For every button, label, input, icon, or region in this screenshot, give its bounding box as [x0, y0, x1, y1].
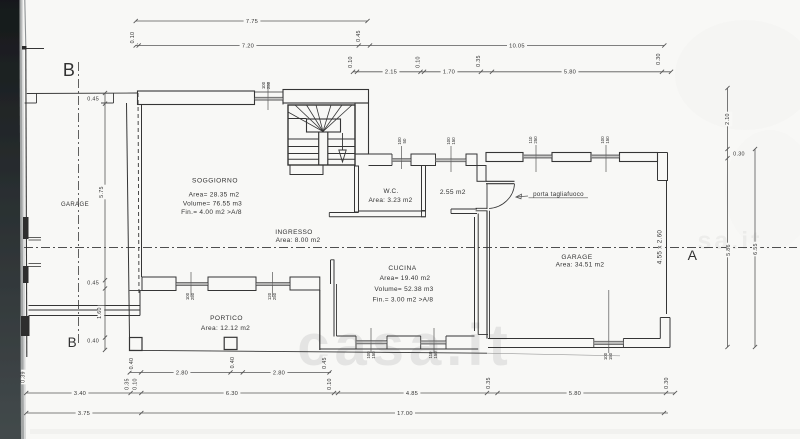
svg-text:0.45: 0.45: [322, 357, 328, 369]
svg-text:150: 150: [451, 137, 456, 145]
svg-text:4.55 x 2.60: 4.55 x 2.60: [657, 230, 664, 265]
svg-text:150: 150: [371, 351, 376, 359]
svg-text:2.55 m2: 2.55 m2: [440, 189, 466, 196]
svg-text:GARAGE: GARAGE: [61, 202, 89, 208]
svg-text:Volume= 76.55 m3: Volume= 76.55 m3: [183, 200, 242, 207]
svg-text:0.39: 0.39: [21, 371, 27, 383]
svg-text:Fin.= 4.00 m2 >A/8: Fin.= 4.00 m2 >A/8: [181, 209, 242, 216]
svg-text:PORTICO: PORTICO: [210, 315, 243, 322]
svg-text:150: 150: [605, 136, 610, 144]
svg-text:0.45: 0.45: [87, 281, 99, 287]
svg-text:2.80: 2.80: [273, 370, 285, 376]
svg-text:5.80: 5.80: [564, 70, 576, 76]
svg-text:0.35: 0.35: [125, 378, 131, 390]
svg-text:150: 150: [433, 351, 438, 359]
svg-text:0.30: 0.30: [733, 152, 745, 158]
svg-text:10.05: 10.05: [509, 43, 525, 49]
svg-text:250: 250: [190, 292, 195, 300]
svg-text:3.40: 3.40: [74, 391, 86, 397]
svg-text:B: B: [63, 60, 75, 80]
svg-text:W.C.: W.C.: [383, 188, 398, 195]
svg-text:0.30: 0.30: [664, 377, 670, 389]
svg-text:4.85: 4.85: [406, 391, 418, 397]
svg-text:7.75: 7.75: [246, 19, 258, 25]
svg-text:Area: 12.12 m2: Area: 12.12 m2: [201, 325, 250, 332]
svg-text:GARAGE: GARAGE: [561, 254, 592, 261]
svg-text:Area= 19.40 m2: Area= 19.40 m2: [380, 275, 431, 282]
svg-text:0.30: 0.30: [656, 53, 662, 65]
svg-text:INGRESSO: INGRESSO: [275, 229, 313, 236]
svg-text:2.10: 2.10: [725, 113, 731, 125]
svg-text:6.55: 6.55: [753, 243, 759, 255]
svg-text:5.86: 5.86: [726, 244, 732, 256]
svg-text:Area: 3.23 m2: Area: 3.23 m2: [368, 197, 412, 204]
svg-text:0.35: 0.35: [486, 377, 492, 389]
svg-text:17.00: 17.00: [397, 411, 413, 417]
svg-text:5.80: 5.80: [569, 391, 581, 397]
svg-text:250: 250: [533, 136, 538, 144]
svg-text:B: B: [68, 335, 77, 350]
svg-text:5.75: 5.75: [99, 186, 105, 198]
svg-text:6.30: 6.30: [226, 391, 238, 397]
svg-text:0.40: 0.40: [87, 339, 99, 345]
svg-text:porta tagliafuoco: porta tagliafuoco: [533, 191, 584, 198]
svg-text:Area: 34.51 m2: Area: 34.51 m2: [556, 261, 605, 268]
svg-text:250: 250: [272, 292, 277, 300]
svg-text:0.10: 0.10: [416, 56, 422, 68]
svg-text:1.70: 1.70: [443, 70, 455, 76]
svg-text:casa.it: casa.it: [297, 313, 513, 378]
svg-text:0.35: 0.35: [476, 55, 482, 67]
svg-text:2.80: 2.80: [176, 370, 188, 376]
svg-text:50: 50: [402, 138, 407, 143]
svg-text:0.10: 0.10: [327, 378, 333, 390]
svg-text:1.60: 1.60: [97, 307, 103, 319]
svg-text:0.45: 0.45: [356, 30, 362, 42]
svg-text:250: 250: [266, 81, 271, 89]
svg-text:0.10: 0.10: [348, 56, 354, 68]
svg-text:0.10: 0.10: [130, 32, 136, 44]
svg-text:Fin.= 3.00 m2 >A/8: Fin.= 3.00 m2 >A/8: [373, 297, 434, 304]
svg-text:3.75: 3.75: [78, 411, 90, 417]
svg-text:150: 150: [608, 352, 613, 360]
svg-text:7.20: 7.20: [242, 43, 254, 49]
svg-text:0.10: 0.10: [133, 378, 139, 390]
svg-text:Area= 28.35 m2: Area= 28.35 m2: [189, 191, 240, 198]
svg-text:Area: 8.00 m2: Area: 8.00 m2: [276, 237, 321, 244]
svg-text:SOGGIORNO: SOGGIORNO: [192, 177, 238, 184]
svg-text:0.45: 0.45: [87, 97, 99, 103]
svg-text:Volume= 52.38 m3: Volume= 52.38 m3: [374, 286, 433, 293]
svg-text:A: A: [688, 247, 698, 263]
svg-text:0.40: 0.40: [230, 357, 236, 369]
svg-text:CUCINA: CUCINA: [388, 265, 416, 272]
svg-text:0.40: 0.40: [129, 358, 135, 370]
svg-text:2.15: 2.15: [385, 70, 397, 76]
